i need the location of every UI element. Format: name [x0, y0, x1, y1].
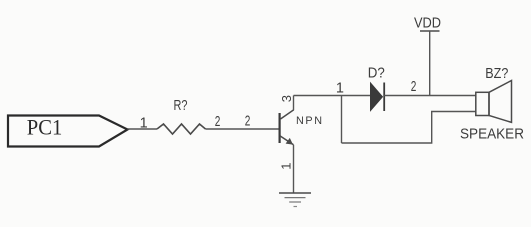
- ground: [279, 193, 311, 207]
- wire bottom loop: [342, 112, 476, 144]
- transistor Q? NPN: [280, 110, 322, 145]
- wire resistor to transistor base: [206, 128, 279, 130]
- wire diode anode drop: [341, 96, 343, 144]
- wire diode to speaker top: [384, 95, 475, 97]
- svg-text:SPEAKER: SPEAKER: [460, 127, 524, 143]
- wire base from PC1 to resistor: [128, 128, 158, 130]
- svg-text:R?: R?: [174, 98, 188, 114]
- svg-text:D?: D?: [368, 66, 385, 82]
- svg-text:NPN: NPN: [296, 115, 322, 127]
- svg-text:1: 1: [279, 163, 294, 170]
- svg-text:1: 1: [140, 115, 148, 131]
- resistor R?: [157, 124, 206, 134]
- power VDD: [414, 15, 441, 95]
- svg-text:BZ?: BZ?: [485, 66, 508, 82]
- svg-text:PC1: PC1: [27, 115, 63, 140]
- wire emitter down: [293, 145, 295, 193]
- svg-text:VDD: VDD: [414, 15, 441, 31]
- wire collector to diode: [294, 95, 371, 97]
- diode D?: [371, 83, 385, 112]
- wire collector up: [293, 96, 295, 111]
- svg-text:2: 2: [411, 79, 417, 95]
- connector PC1: [8, 115, 128, 147]
- svg-text:3: 3: [279, 95, 294, 102]
- svg-text:1: 1: [336, 81, 344, 97]
- svg-text:2: 2: [215, 114, 221, 130]
- speaker BZ?: [476, 81, 512, 123]
- svg-text:2: 2: [245, 114, 251, 130]
